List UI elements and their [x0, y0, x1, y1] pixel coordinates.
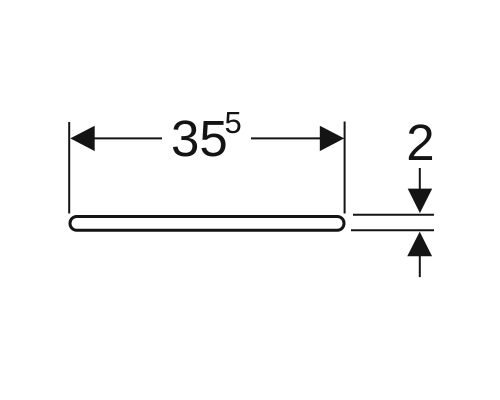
right extension line	[344, 122, 346, 214]
bottom thickness leader line	[351, 229, 434, 231]
down arrowhead	[408, 189, 433, 214]
left arrowhead	[70, 126, 94, 151]
dimension line right segment	[251, 137, 321, 139]
lower vertical dimension line	[419, 250, 421, 277]
left extension line	[68, 122, 70, 214]
up arrowhead	[407, 232, 432, 257]
svg-text:2: 2	[406, 114, 434, 171]
shelf profile bar	[70, 217, 344, 231]
right arrowhead	[320, 126, 344, 151]
svg-text:5: 5	[225, 105, 242, 140]
top thickness leader line	[353, 214, 434, 216]
upper vertical dimension line	[419, 168, 421, 195]
dimension line left segment	[93, 137, 162, 139]
svg-text:35: 35	[171, 110, 228, 167]
